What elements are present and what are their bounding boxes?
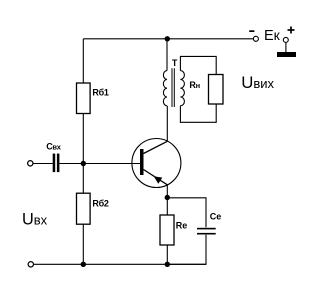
terminal: input top (28, 161, 33, 166)
node: bottom rail dot left (81, 262, 86, 267)
wire: secondary loop (180, 56, 216, 74)
wire: rail between Rб1 and Rб2 (82, 114, 84, 194)
terminal: Eк minus (253, 36, 258, 41)
svg-text:Uвих: Uвих (241, 73, 274, 92)
resistor Rб2 (77, 193, 109, 224)
wire: transformer primary top to supply node (166, 39, 168, 71)
capacitor Ce (197, 211, 221, 234)
svg-text:Cвх: Cвх (46, 142, 62, 152)
wire: collector to transformer primary (166, 106, 168, 142)
transformer T primary winding (163, 71, 167, 106)
transformer T secondary winding (180, 71, 184, 106)
wire: Ce to bottom (167, 235, 206, 265)
svg-text:Eк: Eк (264, 27, 281, 44)
resistor Rн (189, 75, 223, 105)
node: emitter junction dot (165, 195, 170, 200)
plus sign (288, 27, 295, 34)
svg-text:Rб1: Rб1 (92, 88, 108, 98)
transformer T core (172, 68, 174, 107)
svg-text:T: T (172, 58, 178, 68)
svg-text:Rн: Rн (189, 80, 199, 90)
node: collector supply junction dot (165, 36, 170, 41)
wire: rail below Rб2 to bottom (82, 224, 84, 264)
terminal: Eк plus (283, 37, 288, 42)
capacitor Cвх (46, 142, 62, 173)
wire: emitter node to Re (166, 198, 168, 216)
resistor Re (160, 215, 187, 245)
resistor Rб1 (77, 83, 109, 114)
svg-text:Uвх: Uвх (22, 211, 48, 229)
wire: bottom return (34, 263, 206, 265)
node: base junction dot (81, 161, 86, 166)
wire: input terminal to Cвх (33, 163, 53, 165)
wire: Eк plus lead (285, 42, 287, 52)
battery bar (277, 52, 296, 57)
wire: emitter to node (166, 185, 168, 198)
transistor VT (132, 139, 181, 188)
terminal: input bottom (28, 262, 33, 267)
minus sign (249, 30, 254, 32)
wire: Re to bottom (166, 245, 168, 264)
wire: left bias rail (82, 39, 84, 83)
svg-text:Re: Re (176, 221, 188, 231)
svg-text:Ce: Ce (210, 211, 222, 221)
node: bottom rail dot right (165, 262, 170, 267)
wire: top supply rail (83, 38, 253, 40)
svg-text:Rб2: Rб2 (92, 198, 108, 208)
wire: emitter node to Ce (167, 198, 206, 228)
wire: Cвх to base (59, 163, 140, 165)
